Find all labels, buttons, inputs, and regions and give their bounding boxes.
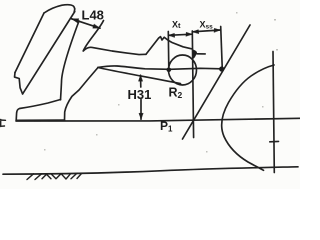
svg-text:L48: L48: [82, 8, 104, 23]
svg-text:H31: H31: [128, 87, 152, 102]
svg-text:Xt: Xt: [172, 20, 181, 30]
